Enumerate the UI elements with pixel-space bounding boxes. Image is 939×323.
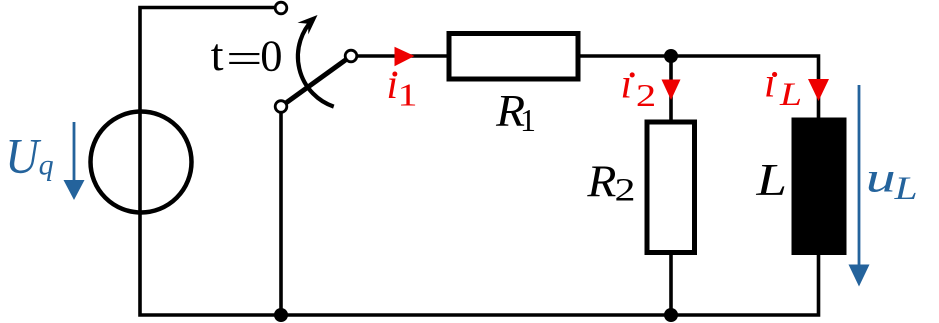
svg-text:=: = <box>226 36 263 83</box>
svg-text:ı: ı <box>621 62 633 108</box>
svg-text:0: 0 <box>260 31 282 81</box>
svg-text:2: 2 <box>636 77 656 113</box>
svg-text:ı: ı <box>764 61 776 107</box>
svg-text:L: L <box>893 171 917 207</box>
svg-text:q: q <box>39 149 54 182</box>
svg-text:u: u <box>866 156 896 202</box>
svg-text:L: L <box>755 154 787 205</box>
svg-text:t: t <box>211 29 224 80</box>
svg-text:2: 2 <box>615 173 636 209</box>
svg-text:L: L <box>779 77 802 113</box>
svg-text:1: 1 <box>398 76 418 112</box>
svg-text:1: 1 <box>520 102 536 138</box>
svg-text:U: U <box>5 128 41 184</box>
svg-text:ı: ı <box>387 62 399 108</box>
svg-text:R: R <box>586 155 616 206</box>
